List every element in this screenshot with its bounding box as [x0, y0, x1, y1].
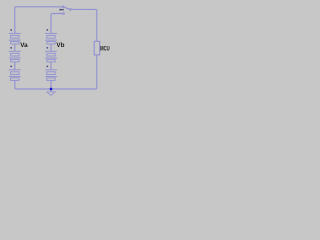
svg-text:Vb: Vb: [56, 42, 64, 49]
svg-text:Va: Va: [20, 42, 28, 49]
svg-text:MCU: MCU: [100, 46, 110, 53]
